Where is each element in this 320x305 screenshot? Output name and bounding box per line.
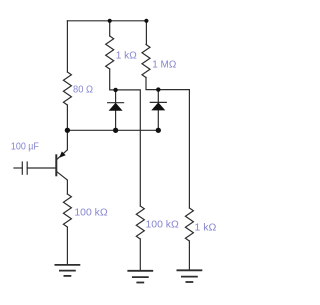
svg-text:100 kΩ: 100 kΩ	[74, 206, 107, 218]
svg-text:1 MΩ: 1 MΩ	[152, 58, 176, 70]
svg-text:100 µF: 100 µF	[11, 140, 39, 152]
svg-text:1 kΩ: 1 kΩ	[195, 221, 217, 233]
svg-text:80 Ω: 80 Ω	[73, 84, 93, 96]
svg-text:100 kΩ: 100 kΩ	[146, 218, 179, 230]
svg-text:1 kΩ: 1 kΩ	[116, 50, 137, 62]
